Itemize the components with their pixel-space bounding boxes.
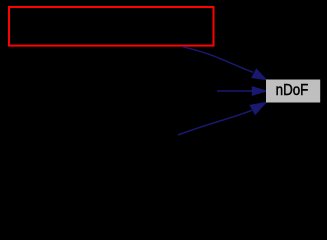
edge: red node to nDoF <box>183 47 254 73</box>
arrowhead: bottom edge <box>250 102 266 114</box>
edge: hidden bottom caller to nDoF <box>178 110 252 135</box>
svg-text:nDoF: nDoF <box>276 82 309 99</box>
arrowhead: edge red node to nDoF <box>252 69 266 80</box>
arrowhead: middle edge <box>252 87 266 96</box>
node nDoF (gray box) <box>266 80 320 103</box>
edge: hidden middle caller to nDoF <box>217 90 253 92</box>
node: truncated caller (red outline, black fill) <box>9 7 214 46</box>
